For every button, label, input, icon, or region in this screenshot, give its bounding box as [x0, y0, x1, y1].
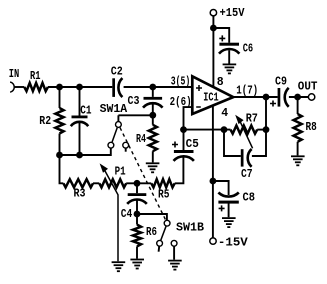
svg-text:IC1: IC1 [203, 91, 219, 104]
svg-text:+15V: +15V [220, 7, 245, 20]
svg-text:8: 8 [217, 76, 224, 89]
svg-text:3(5): 3(5) [171, 76, 191, 89]
svg-text:C8: C8 [243, 192, 256, 205]
svg-text:-15V: -15V [218, 237, 248, 250]
svg-text:C9: C9 [275, 76, 287, 89]
svg-text:P1: P1 [115, 166, 126, 179]
svg-text:SW1A: SW1A [100, 103, 128, 116]
svg-text:R7: R7 [246, 112, 258, 125]
svg-text:2(6): 2(6) [170, 96, 192, 109]
svg-text:C3: C3 [128, 95, 140, 108]
svg-text:R4: R4 [136, 133, 146, 146]
svg-text:1(7): 1(7) [236, 85, 258, 98]
svg-text:C4: C4 [121, 208, 133, 221]
svg-text:C2: C2 [111, 66, 123, 79]
svg-text:C1: C1 [80, 105, 91, 118]
svg-text:IN: IN [9, 68, 20, 81]
svg-text:R3: R3 [74, 188, 86, 201]
svg-text:C7: C7 [241, 168, 253, 181]
svg-text:R2: R2 [39, 115, 51, 128]
svg-text:C5: C5 [186, 138, 199, 151]
svg-text:R1: R1 [30, 70, 41, 83]
svg-text:SW1B: SW1B [176, 221, 204, 234]
svg-text:C6: C6 [243, 43, 254, 56]
svg-text:R5: R5 [158, 188, 170, 201]
svg-text:R8: R8 [306, 121, 317, 134]
svg-text:OUT: OUT [298, 80, 318, 93]
svg-text:R6: R6 [146, 226, 157, 239]
svg-text:4: 4 [221, 107, 228, 120]
